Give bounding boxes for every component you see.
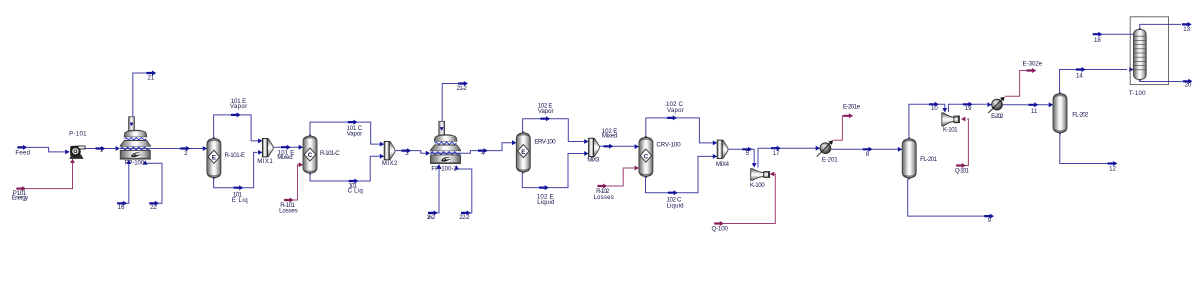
pump P-101 xyxy=(65,130,87,159)
stream 1 xyxy=(84,146,120,154)
svg-text:Vapor: Vapor xyxy=(347,130,362,137)
mixer MIX2 xyxy=(382,141,398,166)
svg-text:ERV-100: ERV-100 xyxy=(534,138,556,145)
svg-text:R-101-C: R-101-C xyxy=(320,150,340,157)
svg-text:22: 22 xyxy=(150,204,157,211)
svg-text:E Liq: E Liq xyxy=(232,197,248,204)
svg-text:16: 16 xyxy=(118,204,125,211)
svg-text:C: C xyxy=(644,153,649,160)
svg-text:Mixed: Mixed xyxy=(277,154,292,161)
stream 21-2 xyxy=(442,81,468,122)
stream 2 xyxy=(180,146,207,157)
mixer MIX1 xyxy=(257,139,273,166)
compressor K-100 xyxy=(750,169,770,190)
stream 22 xyxy=(143,160,162,211)
svg-text:Energy: Energy xyxy=(12,195,29,202)
stream 18 xyxy=(1093,32,1134,44)
svg-text:13: 13 xyxy=(1183,26,1190,33)
reactor R-101-C xyxy=(303,135,340,175)
stream 13 xyxy=(1140,22,1192,33)
stream 16 xyxy=(117,160,131,212)
svg-text:P-101: P-101 xyxy=(69,130,87,137)
svg-text:E-201e: E-201e xyxy=(843,103,861,110)
stream 101 E Mixed xyxy=(273,145,303,161)
mixer MIX3 xyxy=(587,138,600,163)
svg-text:C: C xyxy=(308,152,313,159)
stream 22-2 xyxy=(454,165,472,221)
stream 10 xyxy=(909,102,947,139)
svg-text:14: 14 xyxy=(1076,73,1083,80)
energy stream Q-101 xyxy=(955,117,970,175)
svg-text:MIX1: MIX1 xyxy=(257,158,273,165)
stream 17 xyxy=(758,146,820,168)
svg-text:Vapor: Vapor xyxy=(538,108,554,115)
stream 102 E Liquid xyxy=(522,151,588,206)
mixer MIX4 xyxy=(716,140,730,168)
svg-text:18: 18 xyxy=(1094,37,1101,44)
svg-text:10: 10 xyxy=(931,105,938,112)
svg-text:Feed: Feed xyxy=(15,150,30,157)
svg-text:FL-201: FL-201 xyxy=(920,156,938,163)
svg-text:21: 21 xyxy=(148,74,155,81)
stream 20 xyxy=(1140,79,1193,89)
energy stream Q-100 xyxy=(712,172,776,233)
svg-text:9: 9 xyxy=(988,217,992,224)
svg-text:E-202: E-202 xyxy=(991,113,1004,120)
svg-text:22-2: 22-2 xyxy=(459,214,470,221)
reactor CRV-100 xyxy=(639,136,681,178)
svg-text:K-101: K-101 xyxy=(943,127,958,134)
svg-text:K-100: K-100 xyxy=(750,182,765,189)
svg-text:FL-202: FL-202 xyxy=(1072,111,1089,118)
svg-text:Q-100: Q-100 xyxy=(712,226,729,233)
separator ERV-100 xyxy=(516,132,556,174)
svg-text:Q-101: Q-101 xyxy=(955,168,970,175)
stream 9 xyxy=(908,179,994,224)
reactor FP-100-2 xyxy=(431,121,461,163)
column T-100 box xyxy=(1129,17,1169,97)
stream 102 C Liquid xyxy=(646,154,718,209)
svg-text:19: 19 xyxy=(965,105,972,112)
stream 4 xyxy=(461,140,517,157)
svg-text:Liquid: Liquid xyxy=(537,199,554,206)
svg-text:C Liq: C Liq xyxy=(348,188,363,195)
stream Feed xyxy=(15,145,65,157)
svg-text:Liquid: Liquid xyxy=(666,202,683,209)
svg-text:Losses: Losses xyxy=(279,208,298,215)
svg-text:Losses: Losses xyxy=(593,194,613,201)
energy stream P101 Energy xyxy=(12,159,75,202)
svg-text:20: 20 xyxy=(1185,82,1192,89)
stream 5 xyxy=(728,147,757,168)
energy stream E-302e xyxy=(1005,61,1043,97)
svg-text:21-2: 21-2 xyxy=(457,85,468,92)
separator FL-201 xyxy=(902,138,938,180)
svg-text:E: E xyxy=(212,155,216,162)
stream 101 E Vapor xyxy=(214,98,263,143)
svg-text:Mixed: Mixed xyxy=(602,133,617,140)
stream 14 xyxy=(1060,67,1134,93)
svg-text:MIX3: MIX3 xyxy=(587,156,600,163)
svg-text:T-100: T-100 xyxy=(1129,90,1146,97)
column T-100 tower icon xyxy=(1134,28,1147,81)
wire FP-100-2 pipe line xyxy=(430,152,461,154)
stream 21 xyxy=(133,71,156,118)
svg-text:11: 11 xyxy=(1031,108,1038,115)
svg-text:E-201: E-201 xyxy=(822,156,838,163)
stream 19 xyxy=(948,102,991,112)
svg-text:E: E xyxy=(521,149,525,156)
svg-text:E-302e: E-302e xyxy=(1023,61,1043,68)
compressor K-101 xyxy=(942,113,960,134)
svg-text:16-2: 16-2 xyxy=(426,214,436,221)
svg-text:8: 8 xyxy=(866,151,870,158)
wire FP-100 pipe line xyxy=(120,148,204,150)
cooler E-202 xyxy=(988,97,1004,120)
stream 101 C Liq xyxy=(310,154,384,195)
svg-text:CRV-100: CRV-100 xyxy=(656,142,681,149)
energy stream R-102 Losses xyxy=(593,166,639,201)
stream 102 E Vapor xyxy=(523,103,589,144)
svg-text:4: 4 xyxy=(481,150,485,157)
energy stream R-101 Losses xyxy=(279,162,303,214)
separator FL-202 xyxy=(1053,92,1089,134)
svg-text:Vapor: Vapor xyxy=(230,103,247,110)
svg-text:12: 12 xyxy=(1109,166,1116,173)
svg-text:17: 17 xyxy=(773,150,780,157)
stream 101 E Liq xyxy=(214,150,263,204)
stream 8 xyxy=(831,147,902,158)
stream 16-2 xyxy=(426,164,441,221)
stream 102 C Vapor xyxy=(646,101,717,145)
svg-text:FP-100-2: FP-100-2 xyxy=(431,166,457,173)
energy stream E-201e xyxy=(833,103,860,140)
svg-text:MIX2: MIX2 xyxy=(382,160,398,167)
stream 3 xyxy=(395,148,430,157)
separator R-101-E xyxy=(207,137,245,179)
svg-text:2: 2 xyxy=(184,150,188,157)
stream 11 xyxy=(1003,102,1054,115)
stream 101 C Vapor xyxy=(310,120,384,147)
stream 102 E Mixed xyxy=(600,128,640,149)
stream 12 xyxy=(1060,133,1118,173)
svg-text:MIX4: MIX4 xyxy=(716,161,730,168)
reactor FP-100 xyxy=(120,117,150,159)
svg-text:R-101-E: R-101-E xyxy=(225,152,246,159)
svg-text:Vapor: Vapor xyxy=(667,107,684,114)
cooler E-201 xyxy=(817,140,839,163)
